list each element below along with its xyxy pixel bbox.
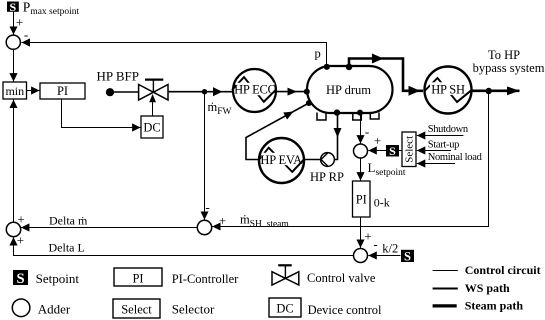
svg-text:-: - [365,124,369,139]
svg-text:0-k: 0-k [374,196,390,210]
svg-text:min: min [5,84,24,98]
svg-text:PI: PI [356,193,367,207]
svg-text:p: p [315,46,321,60]
svg-text:+: + [364,228,371,243]
svg-text:+: + [219,213,226,228]
svg-text:DC: DC [143,121,160,135]
svg-text:-: - [373,237,377,252]
svg-text:DC: DC [276,301,293,315]
svg-text:PI: PI [57,84,68,98]
svg-text:HP RP: HP RP [310,170,344,184]
svg-text:Start-up: Start-up [428,139,459,150]
svg-text:S: S [10,0,17,14]
svg-text:S: S [404,249,411,263]
svg-text:bypass system: bypass system [473,61,545,75]
svg-text:ṁFW: ṁFW [208,100,232,117]
svg-text:Select: Select [404,136,416,163]
svg-text:-: - [24,27,28,42]
svg-text:+: + [16,15,23,30]
svg-text:Device control: Device control [308,303,382,317]
svg-text:Shutdown: Shutdown [428,124,469,135]
svg-text:Control valve: Control valve [307,271,376,285]
svg-text:Delta L: Delta L [49,241,85,255]
svg-text:Adder: Adder [38,302,71,317]
svg-text:HP SH: HP SH [431,83,465,97]
svg-text:+: + [374,133,381,148]
svg-text:PI-Controller: PI-Controller [172,272,239,286]
svg-text:To HP: To HP [488,48,520,62]
svg-text:S: S [389,144,396,158]
svg-text:PI: PI [132,271,143,285]
svg-text:k/2: k/2 [382,242,398,256]
svg-text:Setpoint: Setpoint [36,271,80,286]
svg-text:WS path: WS path [465,281,510,295]
svg-text:+: + [17,232,24,247]
svg-text:Selector: Selector [172,302,215,317]
svg-text:Lsetpoint: Lsetpoint [368,160,406,178]
svg-text:-: - [205,200,209,215]
svg-text:Nominal load: Nominal load [428,152,483,163]
svg-text:Pmax setpoint: Pmax setpoint [23,0,80,17]
svg-text:Steam path: Steam path [465,299,524,313]
svg-text:HP drum: HP drum [326,83,371,97]
svg-text:S: S [16,271,24,287]
svg-text:+: + [17,212,24,227]
svg-text:Delta ṁ: Delta ṁ [49,214,88,228]
svg-text:HP BFP: HP BFP [97,69,140,84]
svg-text:ṁSH steam: ṁSH steam [240,213,289,230]
svg-text:Control circuit: Control circuit [465,263,541,277]
svg-text:Select: Select [121,302,152,316]
svg-text:HP EVA: HP EVA [260,153,302,167]
